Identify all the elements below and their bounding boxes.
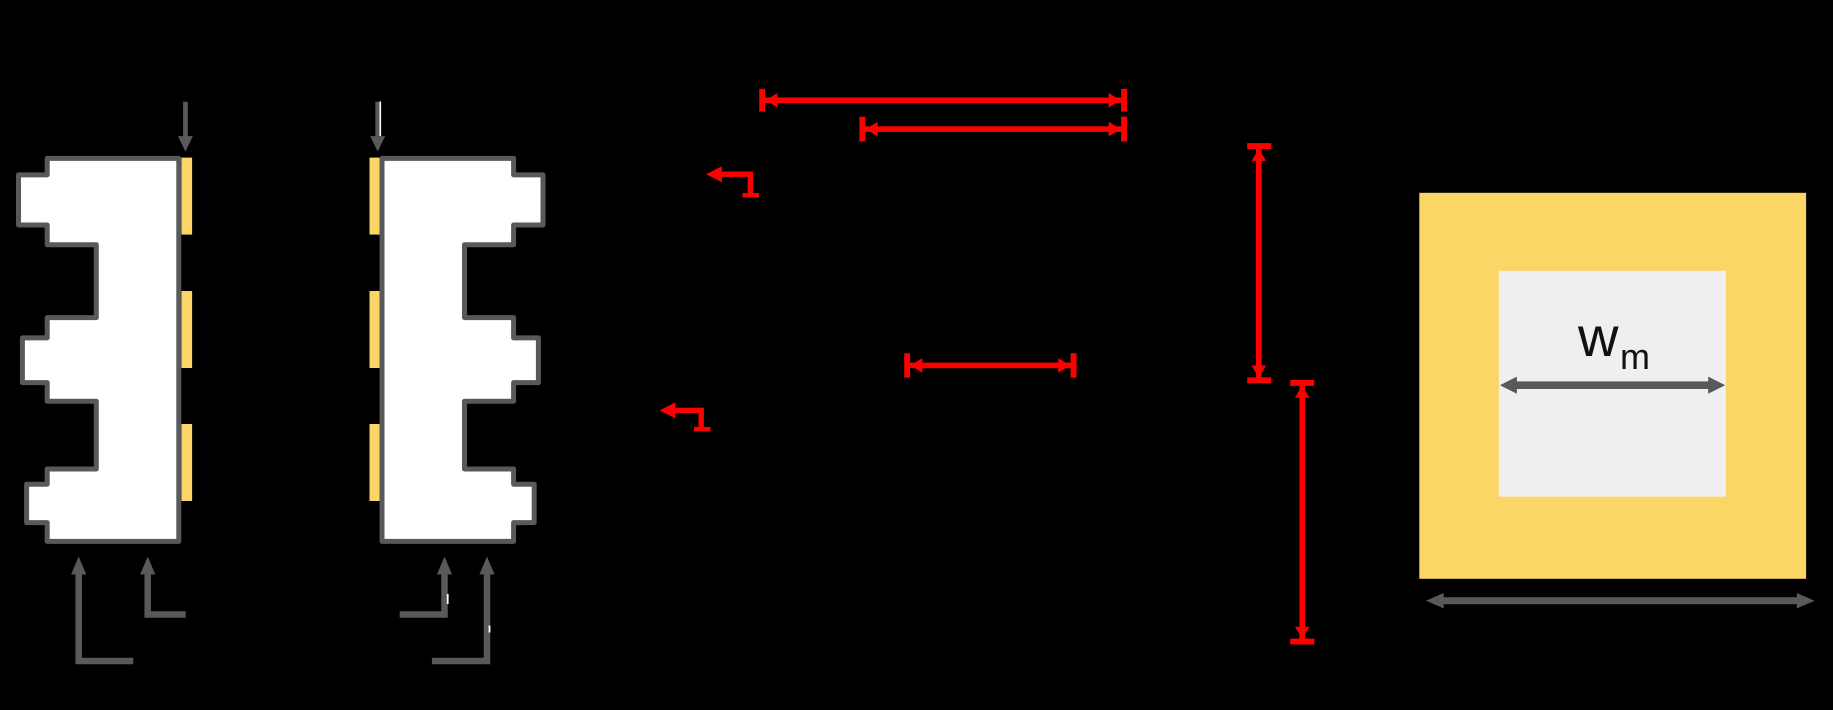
svg-text:w: w [1577, 305, 1619, 368]
red dimension 2 (second horizontal) [859, 117, 1127, 142]
resist strip 3 on right mold [370, 424, 380, 501]
svg-text:m: m [1620, 336, 1650, 377]
mesa width arrow (double-headed) [1500, 377, 1725, 394]
metal pad (yellow square), top view [1419, 193, 1806, 579]
white dash on arrow D [489, 626, 491, 633]
resist strip 1 on left mold [182, 158, 193, 235]
white sliver on right top arrow [380, 102, 382, 137]
mesa (inner light square) [1499, 271, 1726, 497]
top force arrow over right mold [370, 102, 385, 152]
right mold half (mirrored comb cross-section) [382, 158, 543, 541]
top force arrow over left mold [178, 102, 193, 152]
resist strip 2 on right mold [370, 291, 380, 368]
resist strip 1 on right mold [370, 158, 380, 235]
bottom leader arrow B (inner left) [148, 572, 186, 615]
resist strip 3 on left mold [182, 424, 193, 501]
bottom leader arrow D (outer right) [432, 572, 487, 661]
bottom leader arrow A (outer left) [79, 572, 134, 661]
red vertical dimension 1 [1247, 143, 1271, 383]
red corner leader L1 (upper) [706, 166, 759, 197]
red corner leader L2 (lower) [660, 402, 711, 431]
white dash on arrow C [447, 594, 449, 604]
left mold half (comb cross-section) [19, 158, 179, 541]
bottom leader arrow C (inner right) [400, 572, 445, 615]
red vertical dimension 2 [1290, 380, 1314, 645]
resist strip 2 on left mold [182, 291, 193, 368]
red dimension 3 (middle horizontal) [904, 353, 1076, 378]
pad width arrow (double-headed, below square) [1426, 593, 1815, 608]
red dimension 1 (top long horizontal) [759, 89, 1127, 112]
